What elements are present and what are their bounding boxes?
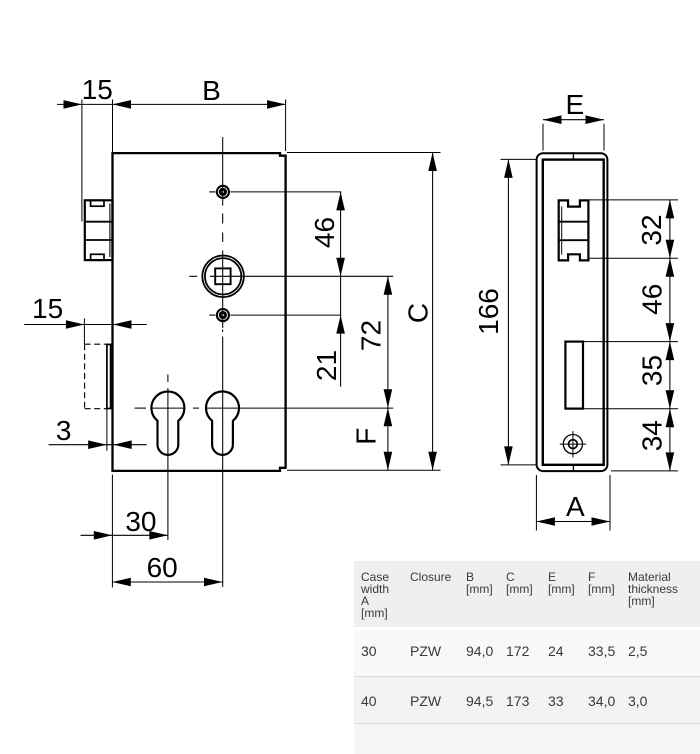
faceplate cylinder slot side view <box>565 342 583 409</box>
specification table <box>354 561 700 754</box>
side view faceplate outline <box>537 153 608 471</box>
svg-text:46: 46 <box>637 284 668 315</box>
profile cylinder hole left <box>151 391 184 454</box>
profile cylinder hole right <box>206 391 239 454</box>
dim 46 / 21 shared line <box>309 192 345 387</box>
faceplate screw hole side view <box>560 431 586 457</box>
dim 15 (top) <box>57 74 131 221</box>
dim 32 / 46 / 35 / 34 (side right) <box>636 200 674 471</box>
svg-text:30: 30 <box>125 506 156 537</box>
extension line case bottom-right to C <box>287 469 441 471</box>
latch bolt side view <box>559 200 589 260</box>
svg-text:35: 35 <box>637 355 668 386</box>
svg-text:F: F <box>351 428 382 445</box>
svg-text:32: 32 <box>636 214 667 245</box>
extension line from bottom screw hole to 21 dim <box>230 314 341 316</box>
spindle left center tick <box>189 275 197 277</box>
dim 166 (side left) <box>473 159 537 465</box>
extension line case top-right to C <box>287 152 441 154</box>
svg-text:C: C <box>403 303 434 323</box>
horizontal centerline through cylinder holes <box>135 407 394 409</box>
side view case body <box>543 160 604 465</box>
dim 72 <box>356 276 393 407</box>
svg-text:15: 15 <box>32 293 63 324</box>
svg-text:A: A <box>566 491 585 522</box>
svg-text:34: 34 <box>637 420 668 451</box>
svg-text:15: 15 <box>82 74 113 105</box>
extension line from spindle to 72 dim <box>210 275 393 277</box>
svg-text:46: 46 <box>309 217 340 248</box>
dim B (top) <box>113 75 286 151</box>
dim 30 (bottom) <box>81 506 168 540</box>
dim E (side top) <box>543 89 604 151</box>
svg-text:B: B <box>202 75 221 106</box>
svg-text:3: 3 <box>56 415 72 446</box>
dim 3 (faceplate thickness) <box>49 415 147 449</box>
top screw hole <box>209 185 230 199</box>
vertical centerline left cylinder <box>167 375 169 541</box>
side right dims extension lines <box>584 200 678 471</box>
spindle hub (square follower) U <box>202 255 244 297</box>
svg-text:60: 60 <box>147 552 178 583</box>
dim A (side bottom) <box>536 475 610 531</box>
latch bolt front view <box>85 200 113 260</box>
svg-text:E: E <box>565 89 584 120</box>
faceplate seam top <box>572 152 574 160</box>
dim 15 (left, faceplate) <box>24 293 147 344</box>
dim C (right) <box>403 153 437 471</box>
lock case front view outline <box>113 153 286 471</box>
dim F <box>351 408 393 471</box>
faceplate seam bottom <box>572 465 574 472</box>
svg-text:72: 72 <box>356 320 387 351</box>
bottom screw hole <box>209 308 230 322</box>
faceplate hidden edges (dashed) <box>85 344 111 451</box>
vertical centerline through spindle <box>222 137 224 587</box>
svg-text:21: 21 <box>311 350 342 381</box>
svg-text:166: 166 <box>473 288 504 335</box>
dim 60 (bottom) <box>112 552 222 586</box>
extension line case bottom-left down <box>111 475 113 588</box>
extension line from top screw hole to 46 dim <box>230 191 341 193</box>
